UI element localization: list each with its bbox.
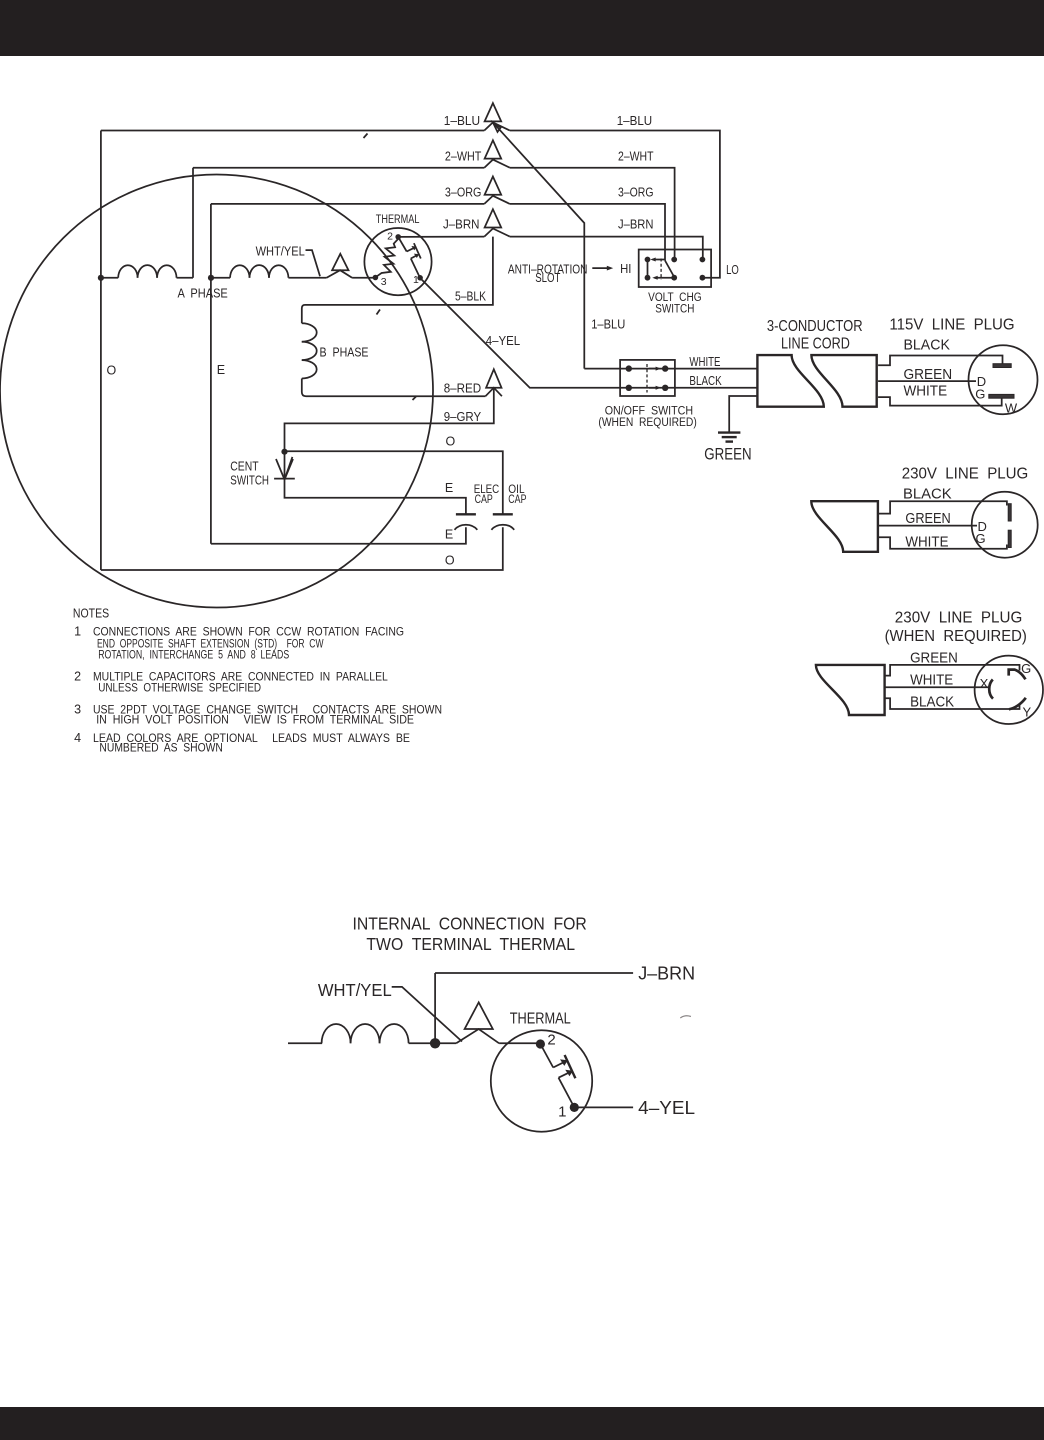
svg-text:INTERNAL CONNECTION FOR: INTERNAL CONNECTION FOR [353,914,587,934]
svg-text:3-CONDUCTOR: 3-CONDUCTOR [767,318,863,335]
svg-text:O: O [445,554,455,568]
svg-text:ROTATION, INTERCHANGE 5 AND: ROTATION, INTERCHANGE 5 AND 8 LEADS [98,647,289,661]
svg-text:CAP: CAP [508,492,526,506]
svg-text:3: 3 [381,276,387,288]
svg-text:(WHEN REQUIRED): (WHEN REQUIRED) [598,415,696,429]
svg-text:E: E [445,527,453,541]
svg-text:UNLESS OTHERWISE SPECIFIED: UNLESS OTHERWISE SPECIFIED [98,680,261,694]
svg-text:WHITE: WHITE [904,384,948,400]
svg-text:Y: Y [1023,705,1032,720]
svg-text:(WHEN REQUIRED): (WHEN REQUIRED) [885,628,1027,645]
svg-text:X: X [980,676,989,691]
svg-text:THERMAL: THERMAL [510,1011,571,1028]
svg-text:2: 2 [387,231,393,243]
svg-text:LO: LO [726,262,739,277]
svg-text:IN HIGH VOLT POSITION V: IN HIGH VOLT POSITION VIEW IS FROM TERMI… [96,713,414,727]
svg-text:SLOT: SLOT [535,270,560,285]
svg-text:G: G [1021,661,1031,676]
svg-text:A PHASE: A PHASE [178,287,228,301]
svg-text:THERMAL: THERMAL [376,214,420,226]
svg-text:J–BRN: J–BRN [638,963,695,983]
svg-text:W: W [1005,401,1018,416]
svg-text:GREEN: GREEN [905,511,950,527]
svg-text:NUMBERED AS SHOWN: NUMBERED AS SHOWN [99,741,222,755]
svg-text:O: O [446,435,456,449]
svg-text:O: O [107,363,117,377]
svg-text:J–BRN: J–BRN [618,218,654,232]
svg-text:WHITE: WHITE [689,355,720,369]
svg-text:2: 2 [74,670,81,684]
svg-text:J–BRN: J–BRN [443,218,480,232]
svg-text:G: G [975,387,985,402]
svg-text:1: 1 [74,625,81,639]
svg-text:BLACK: BLACK [689,374,722,388]
svg-text:BLACK: BLACK [910,695,954,711]
svg-text:NOTES: NOTES [73,606,109,620]
svg-text:4–YEL: 4–YEL [638,1098,695,1118]
svg-text:GREEN: GREEN [704,445,751,464]
svg-text:2: 2 [547,1032,555,1049]
svg-text:9–GRY: 9–GRY [444,410,482,424]
svg-text:4–YEL: 4–YEL [486,334,521,348]
svg-text:1: 1 [558,1104,566,1121]
svg-text:BLACK: BLACK [904,337,951,353]
svg-text:SWITCH: SWITCH [230,474,269,488]
svg-text:1–BLU: 1–BLU [444,114,481,128]
svg-text:G: G [976,531,986,546]
svg-text:GREEN: GREEN [904,367,953,383]
svg-text:2–WHT: 2–WHT [618,149,654,163]
svg-text:GREEN: GREEN [910,651,958,667]
svg-text:HI: HI [620,261,631,276]
svg-text:SWITCH: SWITCH [655,301,694,315]
svg-text:1–BLU: 1–BLU [591,318,625,332]
svg-text:230V LINE PLUG: 230V LINE PLUG [902,466,1029,483]
svg-text:B PHASE: B PHASE [320,346,369,360]
svg-text:5–BLK: 5–BLK [455,289,487,303]
svg-text:WHT/YEL: WHT/YEL [256,245,305,259]
svg-text:1: 1 [413,274,419,286]
svg-text:E: E [217,363,225,377]
svg-text:CENT: CENT [230,460,259,474]
svg-text:LINE CORD: LINE CORD [781,335,850,352]
svg-text:3–ORG: 3–ORG [618,185,654,199]
svg-text:2–WHT: 2–WHT [445,149,482,163]
svg-text:TWO TERMINAL THERMAL: TWO TERMINAL THERMAL [366,934,575,954]
svg-text:3–ORG: 3–ORG [445,185,482,199]
svg-text:4: 4 [74,731,81,745]
svg-text:3: 3 [74,703,81,717]
svg-text:8–RED: 8–RED [444,381,482,395]
svg-text:115V LINE PLUG: 115V LINE PLUG [889,317,1014,334]
svg-text:CAP: CAP [475,492,493,506]
svg-text:WHT/YEL: WHT/YEL [318,980,392,1000]
svg-text:230V LINE PLUG: 230V LINE PLUG [895,609,1023,626]
svg-text:1–BLU: 1–BLU [617,114,653,128]
svg-text:WHITE: WHITE [910,672,953,688]
svg-text:E: E [445,481,453,495]
svg-text:BLACK: BLACK [903,487,952,503]
svg-text:WHITE: WHITE [905,534,948,550]
